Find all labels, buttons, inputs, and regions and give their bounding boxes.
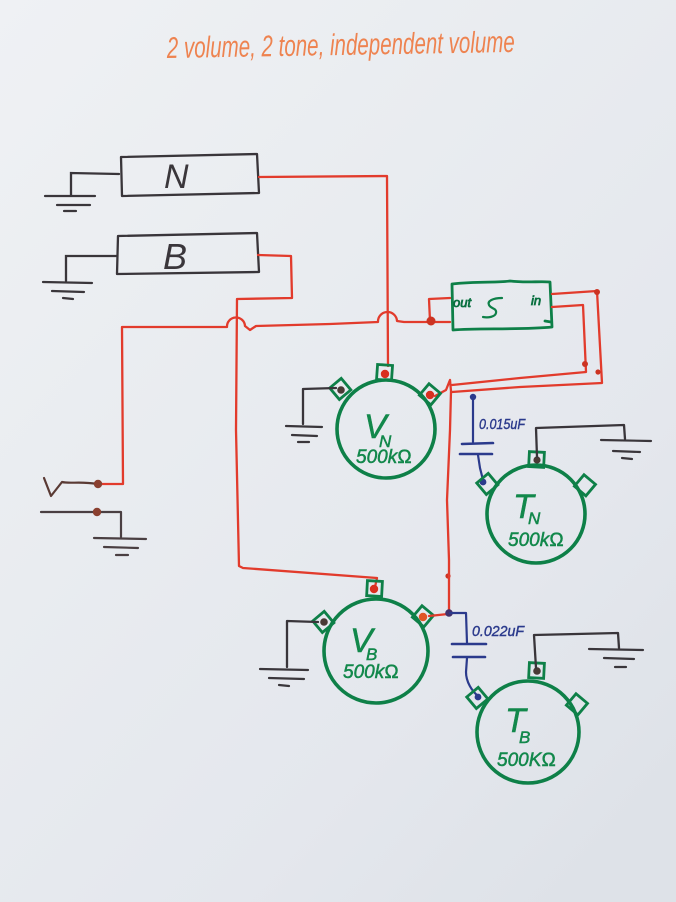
svg-text:B: B: [519, 728, 530, 747]
capacitor C1 value label: [479, 417, 526, 433]
ground (TN): [601, 440, 651, 459]
pickup N: [121, 154, 259, 196]
capacitor C1 wire bottom to TN lug: [478, 455, 483, 480]
capacitor C2 value label: [472, 624, 525, 640]
capacitor C2 plates: [452, 644, 486, 657]
svg-text:500kΩ: 500kΩ: [343, 662, 399, 683]
VN label: [356, 408, 412, 468]
capacitor C1 plates: [460, 443, 493, 454]
wire bus jack hot to switch out (red, hops over two verticals): [98, 298, 450, 484]
svg-text:0.015uF: 0.015uF: [479, 417, 526, 433]
switch label out: [453, 295, 472, 310]
output jack sleeve terminal dot: [93, 508, 101, 516]
TB label: [497, 702, 556, 771]
svg-text:2 volume, 2 tone, independent: 2 volume, 2 tone, independent volume: [166, 26, 515, 65]
svg-text:500KΩ: 500KΩ: [497, 750, 556, 771]
switch S box: [452, 281, 552, 330]
junction bus / switch-out stub: [427, 317, 436, 326]
wire switch in lower terminal (red inner loop): [452, 305, 586, 385]
potentiometer VN body: [337, 380, 435, 478]
ground (output jack): [94, 538, 146, 555]
potentiometer VB lug left: [313, 611, 334, 632]
svg-text:out: out: [453, 295, 472, 310]
potentiometer TN lug right: [574, 475, 595, 496]
ground (VN): [286, 426, 322, 442]
svg-text:B: B: [163, 236, 187, 277]
output jack tip terminal dot: [94, 480, 102, 488]
potentiometer VN lug right: [419, 384, 440, 405]
pickup N label: [164, 158, 189, 196]
potentiometer VN lug left: [330, 378, 351, 399]
junction dots on switch loops: [445, 289, 600, 579]
wire VB right lug to junction (red): [429, 614, 448, 616]
wire N pickup to ground: [71, 173, 119, 195]
ground (N pickup): [45, 196, 95, 211]
wire VN left lug to ground: [303, 388, 336, 424]
TN top lug terminal dot: [533, 456, 540, 463]
capacitor C1 0.015uF wire top (blue): [472, 397, 474, 442]
VN lug terminal dots: [337, 370, 434, 399]
output jack sleeve wire (dark): [41, 512, 121, 537]
potentiometer TB lug top: [529, 663, 545, 679]
potentiometer TN body: [487, 465, 585, 563]
potentiometer VB body: [324, 599, 428, 703]
wire TN top lug to ground: [536, 425, 625, 457]
pickup B: [117, 233, 259, 274]
svg-text:500kΩ: 500kΩ: [356, 447, 412, 468]
title annotation: [166, 26, 515, 65]
wire B pickup to ground: [66, 256, 117, 281]
wire VN right lug to switch loops and down to VB (red): [435, 380, 451, 613]
ground (TB): [589, 649, 643, 667]
potentiometer TB lug left: [467, 687, 488, 708]
VB lug terminal dots: [320, 585, 427, 626]
potentiometer VB lug top: [367, 581, 383, 597]
svg-text:N: N: [164, 158, 189, 196]
junction VB / C2 / red vertical: [445, 609, 453, 617]
wire N pickup hot (red) to VN top lug: [259, 176, 388, 366]
svg-text:in: in: [531, 293, 541, 308]
svg-text:0.022uF: 0.022uF: [472, 624, 525, 640]
potentiometer TN lug top: [529, 452, 545, 468]
svg-text:500kΩ: 500kΩ: [508, 530, 564, 551]
potentiometer TB body: [477, 681, 579, 783]
capacitor C2 0.022uF wire top (blue): [450, 613, 467, 643]
wire switch in upper terminal (red outer loop): [452, 291, 602, 392]
wire VB left lug to ground: [287, 621, 318, 667]
output jack tip wire (dark): [44, 478, 97, 496]
ground (B pickup): [43, 282, 92, 299]
potentiometer TN lug left: [477, 473, 498, 494]
potentiometer TB lug right: [566, 694, 587, 715]
switch S squiggle: [483, 298, 502, 317]
wire B pickup hot (red) jog down to VB top lug: [236, 255, 377, 587]
svg-text:N: N: [528, 509, 541, 528]
ground (VB): [260, 669, 308, 686]
switch label in: [531, 293, 541, 308]
potentiometer VN lug top: [377, 364, 393, 380]
wire TB top lug to ground: [534, 633, 619, 668]
capacitor C2 wire bottom to TB lug: [466, 658, 478, 696]
capacitor C1 terminal dots: [470, 394, 487, 486]
TB top lug terminal dot: [533, 667, 541, 675]
pickup B label: [163, 236, 187, 277]
TN label: [508, 488, 564, 551]
potentiometer VB lug right: [412, 606, 433, 627]
capacitor C2 terminal dot: [475, 694, 482, 701]
VB label: [343, 622, 399, 683]
